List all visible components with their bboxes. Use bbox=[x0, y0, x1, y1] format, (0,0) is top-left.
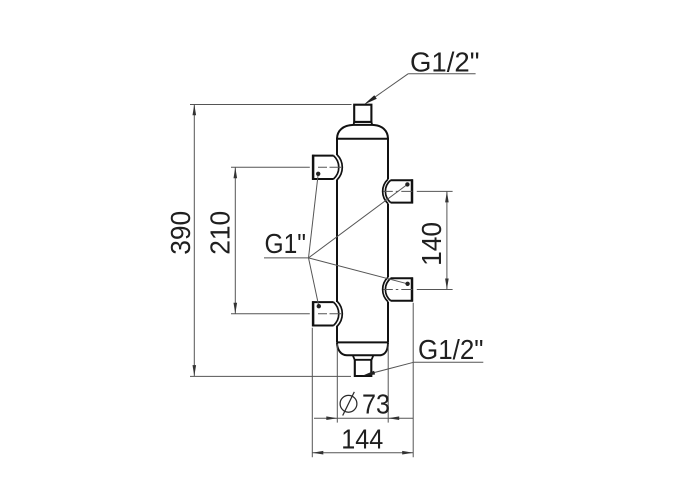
leader G1 dot on port P3 bbox=[405, 182, 409, 186]
dimension 390 dimension line bbox=[193, 104, 195, 376]
port P3 right upper G1 bbox=[383, 179, 413, 203]
dimension dia73 diameter symbol bbox=[340, 392, 357, 416]
dimension 390 extension line bottom bbox=[190, 375, 351, 377]
dimension dia73 dimension line bbox=[314, 417, 413, 419]
dimension 390 arrow bottom bbox=[193, 365, 197, 376]
leader G1 shoulder bbox=[264, 257, 309, 259]
leader G1 line to port P2 bbox=[309, 258, 319, 306]
centerline port P3 bbox=[383, 190, 413, 192]
svg-text:390: 390 bbox=[165, 211, 196, 255]
dimension 144 dimension line bbox=[312, 452, 413, 454]
leader G1 dot on port P4 bbox=[405, 282, 409, 286]
leader G1/2 top line bbox=[367, 74, 409, 103]
leader G1/2 top arrowhead bbox=[364, 95, 377, 104]
svg-text:73: 73 bbox=[362, 389, 390, 420]
top dome bbox=[337, 125, 388, 139]
port P2 left lower G1 bbox=[312, 301, 342, 326]
svg-text:140: 140 bbox=[416, 222, 447, 266]
body cylinder left edge bbox=[336, 139, 338, 342]
leader G1/2 bottom shoulder bbox=[414, 361, 483, 363]
dimension 140 dimension line bbox=[446, 191, 448, 289]
leader G1 dot on port P1 bbox=[316, 172, 320, 176]
dimension 390 extension line top bbox=[190, 104, 352, 106]
leader G1 line to port P3 bbox=[309, 184, 408, 258]
dimension 144 extension line left bbox=[311, 328, 313, 458]
dimension 140 extension line bottom bbox=[417, 289, 453, 291]
dimension 210 arrow top bbox=[234, 167, 238, 178]
centerline port P2 bbox=[310, 313, 344, 315]
dimension 210 extension line bottom bbox=[231, 313, 310, 315]
leader G1 line to port P1 bbox=[309, 174, 319, 258]
svg-text:144: 144 bbox=[341, 423, 383, 454]
dimension dia73 extension line left bbox=[336, 344, 338, 423]
dimension 210 dimension line bbox=[234, 167, 236, 313]
dimension 390 text bbox=[165, 211, 196, 255]
dimension 144 arrow right bbox=[402, 451, 413, 455]
dimension dia73 arrow left bbox=[326, 416, 337, 420]
dimension dia73 extension line right bbox=[387, 344, 389, 423]
dimension 210 extension line top bbox=[231, 166, 310, 168]
leader G1/2 bottom arrowhead bbox=[362, 371, 375, 376]
centerline port P1 bbox=[310, 166, 344, 168]
dimension 210 text bbox=[204, 211, 235, 255]
dimension dia73 arrow right bbox=[388, 416, 399, 420]
port P4 right lower G1 bbox=[383, 277, 413, 301]
bottom nipple G1/2 port bbox=[355, 360, 372, 376]
bottom weld seam bbox=[337, 341, 389, 343]
top nipple G1/2 port bbox=[354, 105, 371, 122]
dimension 390 arrow top bbox=[193, 104, 197, 115]
dimension 144 arrow left bbox=[312, 451, 323, 455]
dimension 210 arrow bottom bbox=[234, 303, 238, 314]
dimension 140 extension line top bbox=[417, 190, 453, 192]
svg-text:G1/2": G1/2" bbox=[410, 46, 480, 77]
body cylinder right edge bbox=[387, 139, 389, 342]
bottom dome bbox=[337, 342, 388, 355]
svg-text:210: 210 bbox=[204, 211, 235, 255]
bottom nipple neck flare bbox=[353, 355, 374, 360]
dimension 140 arrow top bbox=[445, 191, 449, 202]
leader G1 dot on port P2 bbox=[317, 304, 321, 308]
top nipple neck flare bbox=[354, 122, 373, 125]
leader G1 line to port P4 bbox=[309, 258, 408, 284]
dimension 144 extension line right bbox=[412, 303, 414, 458]
dimension 140 text bbox=[416, 222, 447, 266]
dimension 140 arrow bottom bbox=[445, 279, 449, 290]
centerline port P4 bbox=[383, 289, 413, 291]
leader G1/2 top shoulder bbox=[408, 73, 476, 75]
svg-text:G1/2": G1/2" bbox=[418, 334, 484, 365]
svg-text:G1": G1" bbox=[265, 228, 307, 259]
top weld seam bbox=[336, 138, 389, 140]
leader G1/2 bottom line bbox=[373, 362, 414, 373]
port P1 left upper G1 bbox=[312, 155, 342, 180]
